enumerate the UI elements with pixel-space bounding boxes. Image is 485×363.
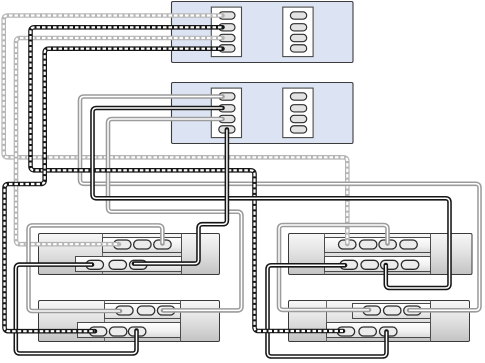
wire shelf1R IOM-A p1 to shelf2R IOM-A p3 (black) [268, 265, 387, 356]
HBA card U2 slot1 [211, 88, 241, 138]
wire shelf1L IOM-B p3 to shelf2L IOM-B p1 (gray) [29, 225, 163, 311]
ports 2L IOM-B [116, 306, 175, 315]
wire C2-P2 to shelf1R IOM-A p3 (black) [93, 108, 450, 288]
wire C2-P4 to shelf1L IOM-A p3 (black) [134, 130, 227, 264]
ports 2L IOM-A [89, 327, 146, 336]
controller U1 [172, 2, 354, 63]
wire C1-P1 to shelf1R IOM-B p1 (lt-gray dashed) [4, 16, 348, 245]
ports 1L IOM-A [86, 260, 147, 269]
HBA card U1 slot2 [283, 7, 313, 57]
ports 2R IOM-B [363, 306, 421, 315]
ports 2R IOM-A [337, 327, 397, 336]
disk shelf 1R [289, 234, 473, 275]
ports 1R IOM-A [340, 260, 419, 269]
HBA card U2 slot2 [283, 88, 313, 138]
wire C1-P2 to shelf2R IOM-A p1 (black dashed) [31, 27, 344, 331]
disk shelf 2L [39, 301, 220, 342]
disk shelf 2R [289, 301, 470, 342]
wire shelf1L IOM-A p1 to shelf2L IOM-A p3 (black) [16, 265, 137, 354]
ports 1L IOM-B [114, 240, 172, 249]
wire C2-P1 to shelf2R IOM-B p3 (gray) [80, 97, 480, 311]
wire C1-P4 to shelf2L IOM-A p1 (black dashed) [5, 49, 223, 332]
wire shelf1R IOM-B p3 to shelf2R IOM-B p1 (gray) [279, 225, 388, 310]
wire C1-P3 to shelf1L IOM-B p1 (lt-gray dashed) [16, 38, 223, 244]
wire C2-P3 to shelf2L IOM-B p3 (gray) [108, 119, 242, 310]
HBA card U1 slot1 [211, 7, 241, 57]
controller U2 [172, 83, 354, 144]
ports 1R IOM-B [339, 240, 418, 249]
disk shelf 1L [39, 234, 220, 275]
